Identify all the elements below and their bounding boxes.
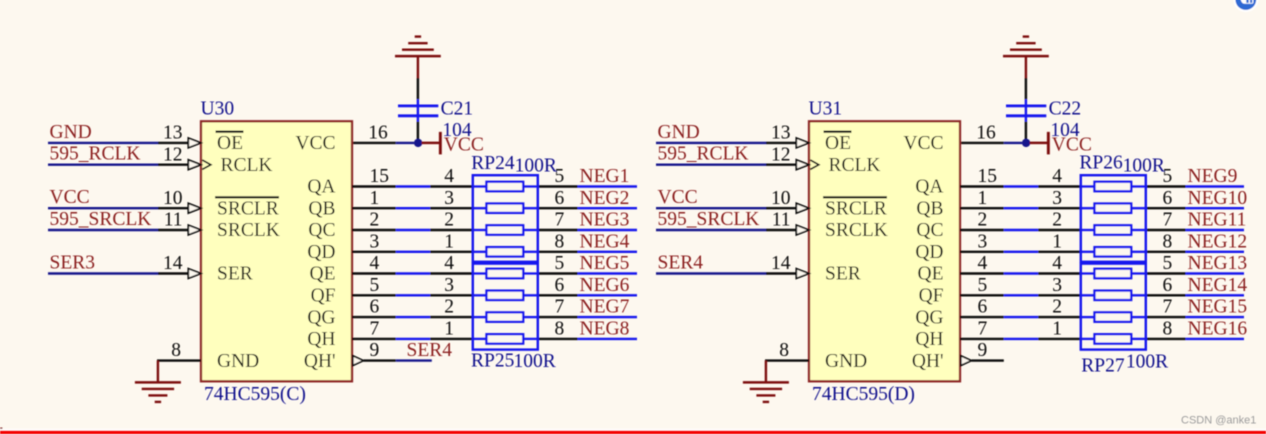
svg-text:NEG6: NEG6 [580, 275, 630, 296]
wire net 595_SRCLK blue segment [656, 229, 766, 231]
wire QB blue segment [396, 207, 430, 209]
svg-text:QA: QA [915, 177, 943, 198]
resistor RP25 element 1 [473, 272, 487, 274]
input arrow pin 11 [188, 225, 201, 235]
wire QF blue segment [396, 294, 430, 296]
svg-text:U30: U30 [201, 99, 235, 120]
wire QH blue segment [1004, 338, 1038, 340]
wire net NEG3 [578, 229, 637, 231]
wire QD pin stub [352, 251, 396, 253]
wire net 595_RCLK black segment [766, 163, 796, 165]
svg-text:GND: GND [658, 122, 700, 143]
svg-text:3: 3 [444, 188, 454, 209]
wire net NEG13 [1186, 272, 1244, 274]
edge mark bottom left [0, 428, 3, 431]
svg-text:QG: QG [307, 307, 335, 328]
wire QH blue segment [396, 338, 430, 340]
svg-text:9: 9 [370, 340, 380, 361]
svg-text:595_SRCLK: 595_SRCLK [658, 209, 760, 230]
svg-text:3: 3 [1052, 275, 1062, 296]
svg-text:NEG4: NEG4 [580, 231, 630, 252]
wire QD blue segment [1004, 251, 1038, 253]
wire capacitor to VCC net [1025, 122, 1027, 141]
svg-text:1: 1 [444, 319, 454, 340]
svg-text:QC: QC [308, 220, 335, 241]
svg-text:3: 3 [370, 231, 380, 252]
svg-text:SRCLR: SRCLR [217, 198, 279, 219]
svg-text:1: 1 [1052, 231, 1062, 252]
svg-text:6: 6 [555, 275, 565, 296]
wire QA to resistor pack [1038, 185, 1081, 187]
resistor RP27 element 4 [1081, 338, 1095, 340]
svg-text:VCC: VCC [295, 133, 335, 154]
wire QD pin stub [960, 251, 1004, 253]
wire net GND blue segment [656, 142, 766, 144]
svg-text:14: 14 [771, 253, 791, 274]
wire net NEG15 [1186, 316, 1244, 318]
svg-text:8: 8 [555, 319, 565, 340]
svg-text:7: 7 [555, 297, 565, 318]
svg-text:6: 6 [978, 297, 988, 318]
wire QE to resistor pack [430, 272, 473, 274]
resistor RP26 element 3 [1081, 229, 1095, 231]
wire net NEG7 [578, 316, 637, 318]
wire pin 8 GND [157, 359, 201, 361]
svg-text:GND: GND [217, 351, 259, 372]
svg-text:5: 5 [370, 275, 380, 296]
wire capacitor to VCC net [417, 122, 419, 141]
wire NEG7 black segment [538, 316, 578, 318]
wire net NEG1 [578, 185, 637, 187]
svg-text:QD: QD [307, 242, 335, 263]
junction node VCC [1022, 139, 1030, 147]
wire QC blue segment [1004, 229, 1038, 231]
svg-text:SER3: SER3 [50, 253, 96, 274]
input arrow pin 14 [796, 269, 809, 279]
resistor RP27 element 1 [1081, 272, 1095, 274]
svg-text:QH: QH [307, 329, 335, 350]
wire QG blue segment [396, 316, 430, 318]
svg-text:3: 3 [978, 231, 988, 252]
svg-text:QH': QH' [304, 351, 336, 372]
input arrow pin 11 [796, 225, 809, 235]
wire net GND black segment [158, 142, 188, 144]
ground (flipped) above C22 [1025, 56, 1027, 78]
resistor RP25 element 4 [473, 338, 487, 340]
capacitor C21 104 [417, 99, 419, 121]
svg-text:74HC595(C): 74HC595(C) [204, 384, 306, 405]
svg-text:10: 10 [771, 188, 791, 209]
wire QC pin stub [352, 229, 396, 231]
svg-text:RP27: RP27 [1081, 355, 1125, 376]
svg-text:595_SRCLK: 595_SRCLK [50, 209, 152, 230]
wire net SER4 blue segment [656, 272, 766, 274]
svg-text:GND: GND [50, 122, 92, 143]
svg-text:7: 7 [555, 210, 565, 231]
wire QA blue segment [396, 185, 430, 187]
svg-text:15: 15 [978, 166, 998, 187]
ground at pin 8 [765, 361, 767, 383]
svg-text:6: 6 [1163, 188, 1173, 209]
svg-text:4: 4 [978, 253, 988, 274]
svg-text:15: 15 [370, 166, 390, 187]
svg-text:U31: U31 [809, 99, 843, 120]
svg-text:100R: 100R [514, 351, 556, 372]
svg-text:595_RCLK: 595_RCLK [658, 144, 749, 165]
svg-text:SER4: SER4 [407, 340, 453, 361]
resistor RP24 element 2 [473, 207, 487, 209]
wire NEG6 black segment [538, 294, 578, 296]
svg-text:2: 2 [1052, 210, 1062, 231]
wire QE blue segment [1004, 272, 1038, 274]
wire net NEG4 [578, 251, 637, 253]
svg-text:QG: QG [915, 307, 943, 328]
svg-text:CSDN @anke1: CSDN @anke1 [1181, 414, 1256, 426]
CSDN icon top right [1234, 0, 1257, 11]
svg-text:QD: QD [915, 242, 943, 263]
svg-text:7: 7 [978, 319, 988, 340]
wire QH to resistor pack [430, 338, 473, 340]
svg-text:3: 3 [444, 275, 454, 296]
svg-text:NEG13: NEG13 [1188, 253, 1248, 274]
resistor RP24 element 4 [473, 251, 487, 253]
wire net NEG12 [1186, 251, 1244, 253]
wire QG pin stub [960, 316, 1004, 318]
svg-text:QE: QE [310, 264, 336, 285]
svg-text:6: 6 [1163, 275, 1173, 296]
svg-text:QB: QB [308, 198, 335, 219]
wire net GND black segment [766, 142, 796, 144]
svg-text:SRCLK: SRCLK [217, 220, 280, 241]
resistor RP26 element 4 [1081, 251, 1095, 253]
svg-text:2: 2 [1052, 297, 1062, 318]
svg-text:RP26: RP26 [1079, 153, 1123, 174]
svg-text:2: 2 [978, 210, 988, 231]
wire QA pin stub [352, 185, 396, 187]
wire net VCC blue segment [48, 207, 158, 209]
svg-text:GND: GND [825, 351, 867, 372]
svg-text:4: 4 [370, 253, 380, 274]
wire net SER3 black segment [158, 272, 188, 274]
wire QH to resistor pack [1038, 338, 1081, 340]
input arrow pin 13 [188, 138, 201, 148]
svg-text:100R: 100R [515, 156, 557, 177]
svg-text:12: 12 [771, 144, 791, 165]
svg-text:11: 11 [164, 210, 183, 231]
resistor pack RP24 box [473, 175, 538, 262]
svg-text:OE: OE [217, 133, 243, 154]
svg-text:9: 9 [978, 340, 988, 361]
wire pin 8 GND [765, 359, 809, 361]
svg-text:4: 4 [1052, 253, 1062, 274]
wire ground to capacitor [1025, 78, 1027, 99]
wire net SER3 blue segment [48, 272, 158, 274]
svg-text:4: 4 [1052, 166, 1062, 187]
input arrow pin 12 [796, 160, 809, 170]
wire QF to resistor pack [1038, 294, 1081, 296]
wire net NEG6 [578, 294, 637, 296]
wire NEG10 black segment [1146, 207, 1186, 209]
wire QC blue segment [396, 229, 430, 231]
wire QD to resistor pack [430, 251, 473, 253]
wire QF pin stub [352, 294, 396, 296]
resistor RP26 element 2 [1081, 207, 1095, 209]
wire NEG12 black segment [1146, 251, 1186, 253]
wire net VCC blue segment [656, 207, 766, 209]
svg-text:QE: QE [918, 264, 944, 285]
IC U31 74HC595 body [809, 121, 960, 381]
wire net SER4 [396, 359, 432, 361]
wire NEG11 black segment [1146, 229, 1186, 231]
clock chevron RCLK [202, 160, 211, 169]
resistor RP24 element 1 [473, 185, 487, 187]
svg-text:NEG15: NEG15 [1188, 297, 1248, 318]
wire QB to resistor pack [430, 207, 473, 209]
output arrow pin 9 [961, 356, 972, 366]
wire NEG16 black segment [1146, 338, 1186, 340]
clock chevron RCLK [810, 160, 819, 169]
svg-text:8: 8 [1163, 231, 1173, 252]
svg-text:OE: OE [825, 133, 851, 154]
wire QC to resistor pack [430, 229, 473, 231]
svg-text:C22: C22 [1049, 99, 1082, 120]
wire QC pin stub [960, 229, 1004, 231]
svg-text:74HC595(D): 74HC595(D) [812, 384, 915, 405]
wire QF to resistor pack [430, 294, 473, 296]
svg-text:NEG10: NEG10 [1188, 188, 1248, 209]
resistor pack RP26 box [1081, 175, 1146, 262]
ground at pin 8 [157, 361, 159, 383]
wire QG to resistor pack [430, 316, 473, 318]
resistor pack RP27 box [1081, 264, 1146, 350]
input arrow pin 14 [188, 269, 201, 279]
wire QA blue segment [1004, 185, 1038, 187]
wire QE pin stub [960, 272, 1004, 274]
svg-text:1: 1 [1052, 319, 1062, 340]
wire NEG14 black segment [1146, 294, 1186, 296]
svg-text:16: 16 [976, 123, 996, 144]
svg-text:NEG11: NEG11 [1188, 210, 1247, 231]
wire net NEG11 [1186, 229, 1244, 231]
resistor RP26 element 1 [1081, 185, 1095, 187]
wire QG to resistor pack [1038, 316, 1081, 318]
wire net VCC black segment [766, 207, 796, 209]
power port VCC bar [439, 132, 442, 155]
svg-text:4: 4 [444, 166, 454, 187]
svg-text:8: 8 [1163, 319, 1173, 340]
svg-text:5: 5 [1163, 253, 1173, 274]
svg-text:1: 1 [370, 188, 380, 209]
wire pin16 black segment [960, 142, 1004, 144]
wire net 595_RCLK blue segment [656, 163, 766, 165]
wire net NEG16 [1186, 338, 1244, 340]
svg-text:NEG16: NEG16 [1188, 319, 1248, 340]
svg-text:SRCLR: SRCLR [825, 198, 887, 219]
wire junction to VCC port [1030, 142, 1048, 145]
wire NEG15 black segment [1146, 316, 1186, 318]
resistor RP27 element 2 [1081, 294, 1095, 296]
resistor RP27 element 3 [1081, 316, 1095, 318]
svg-text:8: 8 [779, 340, 789, 361]
svg-text:12: 12 [163, 144, 183, 165]
power port VCC bar [1047, 132, 1050, 155]
wire net NEG14 [1186, 294, 1244, 296]
wire QE blue segment [396, 272, 430, 274]
svg-text:NEG14: NEG14 [1188, 275, 1248, 296]
svg-text:8: 8 [171, 340, 181, 361]
svg-text:RP25: RP25 [471, 350, 514, 371]
output arrow pin 9 [353, 356, 364, 366]
junction node VCC [414, 139, 422, 147]
wire QF blue segment [1004, 294, 1038, 296]
IC U30 74HC595 body [201, 121, 352, 381]
svg-text:NEG8: NEG8 [580, 319, 630, 340]
resistor RP25 element 3 [473, 316, 487, 318]
svg-text:SER: SER [825, 264, 861, 285]
svg-text:595_RCLK: 595_RCLK [50, 144, 141, 165]
svg-text:2: 2 [444, 297, 454, 318]
wire QH pin stub [960, 338, 1004, 340]
svg-text:4: 4 [444, 253, 454, 274]
wire net NEG2 [578, 207, 637, 209]
wire NEG4 black segment [538, 251, 578, 253]
white separator above red bar [0, 429, 1266, 431]
svg-text:7: 7 [1163, 210, 1173, 231]
wire QD to resistor pack [1038, 251, 1081, 253]
ground (flipped) above C21 [417, 56, 419, 78]
input arrow pin 10 [796, 203, 809, 213]
svg-text:RCLK: RCLK [829, 155, 881, 176]
wire junction to VCC port [422, 142, 440, 145]
svg-text:7: 7 [1163, 297, 1173, 318]
wire QH pin stub [352, 338, 396, 340]
svg-text:1: 1 [444, 231, 454, 252]
wire net NEG5 [578, 272, 637, 274]
wire net NEG9 [1186, 185, 1244, 187]
wire net 595_RCLK blue segment [48, 163, 158, 165]
svg-text:NEG12: NEG12 [1188, 231, 1248, 252]
svg-text:NEG5: NEG5 [580, 253, 630, 274]
svg-text:2: 2 [444, 210, 454, 231]
input arrow pin 13 [796, 138, 809, 148]
svg-text:7: 7 [370, 319, 380, 340]
wire pin16 blue segment [1004, 142, 1022, 144]
svg-text:10: 10 [163, 188, 183, 209]
wire NEG13 black segment [1146, 272, 1186, 274]
input arrow pin 10 [188, 203, 201, 213]
svg-text:100R: 100R [1126, 352, 1168, 373]
svg-text:16: 16 [368, 123, 388, 144]
svg-text:RCLK: RCLK [221, 155, 273, 176]
wire QB blue segment [1004, 207, 1038, 209]
wire QC to resistor pack [1038, 229, 1081, 231]
wire net 595_SRCLK blue segment [48, 229, 158, 231]
wire QH' stub [971, 359, 1003, 361]
red bottom bar [0, 431, 1266, 434]
wire net VCC black segment [158, 207, 188, 209]
svg-text:NEG9: NEG9 [1188, 166, 1238, 187]
svg-text:6: 6 [555, 188, 565, 209]
wire NEG2 black segment [538, 207, 578, 209]
wire QB pin stub [960, 207, 1004, 209]
wire NEG9 black segment [1146, 185, 1186, 187]
svg-text:NEG7: NEG7 [580, 297, 630, 318]
wire net 595_RCLK black segment [158, 163, 188, 165]
svg-text:1: 1 [978, 188, 988, 209]
wire QD blue segment [396, 251, 430, 253]
svg-text:C21: C21 [441, 99, 474, 120]
svg-text:11: 11 [772, 210, 791, 231]
wire net 595_SRCLK black segment [158, 229, 188, 231]
svg-text:QC: QC [916, 220, 943, 241]
svg-text:NEG3: NEG3 [580, 210, 630, 231]
svg-text:SER: SER [217, 264, 253, 285]
wire net GND blue segment [48, 142, 158, 144]
svg-text:5: 5 [555, 253, 565, 274]
svg-text:6: 6 [370, 297, 380, 318]
wire net 595_SRCLK black segment [766, 229, 796, 231]
svg-text:3: 3 [1052, 188, 1062, 209]
wire net SER4 black segment [766, 272, 796, 274]
svg-text:QF: QF [311, 286, 336, 307]
resistor RP24 element 3 [473, 229, 487, 231]
wire QF pin stub [960, 294, 1004, 296]
wire QB to resistor pack [1038, 207, 1081, 209]
wire QE pin stub [352, 272, 396, 274]
svg-text:NEG1: NEG1 [580, 166, 630, 187]
svg-text:100R: 100R [1123, 156, 1165, 177]
resistor RP25 element 2 [473, 294, 487, 296]
wire QH' stub [363, 359, 395, 361]
svg-text:2: 2 [370, 210, 380, 231]
wire QB pin stub [352, 207, 396, 209]
svg-text:QH': QH' [912, 351, 944, 372]
input arrow pin 12 [188, 160, 201, 170]
wire NEG1 black segment [538, 185, 578, 187]
wire QE to resistor pack [1038, 272, 1081, 274]
svg-text:RP24: RP24 [471, 153, 515, 174]
wire QG blue segment [1004, 316, 1038, 318]
svg-text:13: 13 [771, 123, 791, 144]
svg-text:8: 8 [555, 231, 565, 252]
svg-text:QH: QH [915, 329, 943, 350]
wire QG pin stub [352, 316, 396, 318]
wire NEG5 black segment [538, 272, 578, 274]
svg-text:VCC: VCC [903, 133, 943, 154]
svg-text:VCC: VCC [50, 187, 90, 208]
wire pin16 black segment [352, 142, 396, 144]
wire pin16 blue segment [396, 142, 414, 144]
wire NEG3 black segment [538, 229, 578, 231]
svg-text:14: 14 [163, 253, 183, 274]
svg-text:VCC: VCC [658, 187, 698, 208]
svg-text:QB: QB [916, 198, 943, 219]
wire QA pin stub [960, 185, 1004, 187]
wire net NEG8 [578, 338, 637, 340]
svg-text:13: 13 [163, 123, 183, 144]
wire net NEG10 [1186, 207, 1244, 209]
svg-text:5: 5 [978, 275, 988, 296]
resistor pack RP25 box [473, 264, 538, 350]
wire QA to resistor pack [430, 185, 473, 187]
svg-text:QF: QF [919, 286, 944, 307]
wire NEG8 black segment [538, 338, 578, 340]
svg-text:SRCLK: SRCLK [825, 220, 888, 241]
capacitor C22 104 [1025, 99, 1027, 121]
svg-text:SER4: SER4 [658, 253, 704, 274]
svg-text:NEG2: NEG2 [580, 188, 630, 209]
wire ground to capacitor [417, 78, 419, 99]
